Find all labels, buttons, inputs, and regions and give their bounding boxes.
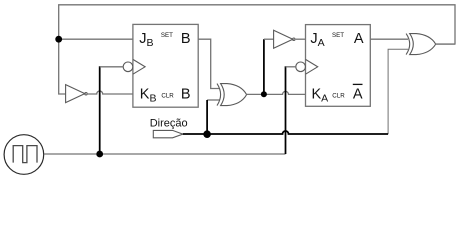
xor gate X2 (right) — [406, 34, 436, 55]
xor gate X1 (middle) — [217, 84, 247, 106]
wire: inverter U1 output to KB with hop over clock riser — [88, 91, 133, 94]
wire: Direcao riser to XOR2 lower input — [388, 49, 408, 134]
wire: A output to XOR2 upper input — [370, 38, 408, 40]
wire: clock riser to FF A (black vertical) — [285, 66, 287, 154]
wire: Direcao to junction and across to XOR2 riser (black), hop over clock riser — [183, 131, 388, 134]
svg-text:B: B — [181, 31, 191, 47]
flip-flop U2 JK (B) box — [133, 24, 198, 107]
svg-text:Direção: Direção — [150, 118, 188, 130]
wire: B output to XOR1 upper input — [198, 39, 219, 88]
wire: riser top to FF A clock bubble — [286, 66, 297, 68]
clock triangle FF A — [306, 59, 318, 74]
svg-text:A: A — [354, 31, 364, 47]
wire: XOR1 output to KA with hop over clock riser — [247, 91, 306, 94]
wire: clock line — [44, 153, 285, 155]
clock bubble FF B — [123, 62, 133, 72]
node: clock junction dot — [96, 151, 103, 158]
svg-text:CLR: CLR — [161, 92, 174, 99]
svg-text:B: B — [181, 87, 191, 103]
wire: riser top to FF B clock bubble — [100, 66, 124, 68]
svg-text:CLR: CLR — [332, 92, 345, 99]
input tag Direcao — [153, 130, 183, 137]
node: junction dot XOR1 output — [261, 91, 267, 97]
clock bubble FF A — [296, 62, 306, 72]
node: Direcao junction dot — [203, 130, 211, 138]
svg-text:A: A — [353, 87, 363, 103]
inverter U1 (buffer to KB) — [66, 85, 85, 103]
wire: XOR2 output to top feedback — [436, 43, 456, 45]
svg-text:SET: SET — [332, 32, 344, 39]
clock triangle FF B — [133, 59, 145, 74]
node: junction dot left rail — [55, 36, 62, 43]
wire: top feedback from XOR2 output to left rail — [59, 5, 455, 94]
wire: left rail to JB input — [59, 38, 133, 40]
wire: inverter U3 output to JA — [296, 38, 306, 40]
svg-text:SET: SET — [161, 32, 173, 39]
wire: Direcao riser to XOR1 lower input (black) — [206, 100, 208, 134]
wire: XOR1 lower input stub — [207, 99, 219, 101]
flip-flop U4 JK (A) box — [306, 25, 371, 107]
wire: junction up to inverter U3 input (black vertical) — [263, 39, 265, 94]
wire: clock riser to FF B (black vertical) — [99, 66, 101, 154]
inverter U3 (buffer to JA) — [274, 30, 293, 48]
clock source V1 — [4, 135, 44, 175]
